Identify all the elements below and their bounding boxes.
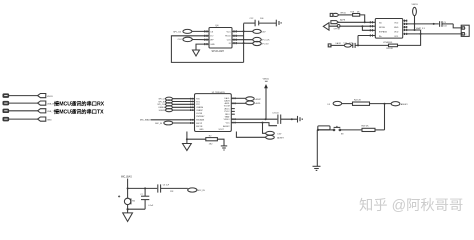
svg-text:2.2: 2.2 (328, 45, 331, 47)
svg-text:SPI-FLASH: SPI-FLASH (212, 50, 225, 53)
svg-text:P21: P21 (196, 101, 199, 103)
svg-text:GND: GND (47, 119, 52, 121)
svg-text:VHCU: VHCU (340, 12, 346, 14)
svg-text:USBDM: USBDM (158, 107, 166, 109)
svg-text:RFIO: RFIO (225, 114, 230, 116)
svg-text:HOLD: HOLD (225, 36, 231, 38)
svg-text:SPI_CS: SPI_CS (173, 31, 181, 33)
svg-text:SPI_CS: SPI_CS (158, 99, 166, 101)
svg-text:104: 104 (443, 25, 446, 27)
svg-text:VOUT: VOUT (219, 129, 225, 131)
svg-text:GND: GND (210, 44, 215, 46)
svg-text:MIC1N: MIC1N (196, 126, 203, 128)
svg-text:C7: C7 (140, 194, 142, 196)
svg-text:VCOM: VCOM (224, 106, 230, 108)
svg-text:MODE: MODE (379, 27, 386, 29)
svg-text:VCC: VCC (226, 122, 231, 124)
svg-text:C21: C21 (343, 43, 346, 45)
svg-text:PVCC: PVCC (224, 111, 230, 113)
svg-text:C9: C9 (443, 22, 445, 24)
svg-text:LTM8205: LTM8205 (383, 42, 393, 44)
svg-text:接MCU通讯的串口TX: 接MCU通讯的串口TX (54, 107, 104, 115)
svg-text:USBDP: USBDP (196, 110, 203, 112)
svg-text:3.3V: 3.3V (261, 32, 266, 34)
svg-text:R18: R18 (350, 12, 353, 14)
svg-text:P22: P22 (196, 104, 199, 106)
svg-text:CLK: CLK (178, 39, 183, 41)
svg-text:LDOIN: LDOIN (196, 113, 202, 115)
svg-text:GND: GND (394, 27, 399, 29)
svg-text:PWRKEY: PWRKEY (196, 116, 205, 118)
svg-text:SPI_CLK: SPI_CLK (157, 104, 166, 106)
svg-text:接MCU通讯的串口RX: 接MCU通讯的串口RX (54, 99, 105, 107)
svg-text:VCC: VCC (226, 31, 231, 33)
svg-text:U1 TRX04ON: U1 TRX04ON (212, 92, 225, 94)
svg-text:0.1uF: 0.1uF (148, 205, 154, 207)
svg-text:C6 1uF: C6 1uF (163, 185, 170, 187)
svg-text:USBDM: USBDM (196, 107, 203, 109)
svg-text:SPI_SO: SPI_SO (158, 101, 166, 103)
svg-text:MIC1P: MIC1P (196, 123, 203, 125)
svg-text:VDDIO: VDDIO (224, 119, 231, 121)
svg-text:VMCU: VMCU (412, 4, 419, 6)
svg-text:DO: DO (210, 36, 213, 38)
svg-text:VHCU: VHCU (47, 96, 53, 98)
svg-text:USBDP: USBDP (159, 110, 167, 112)
svg-text:104: 104 (349, 43, 352, 45)
svg-text:知乎 @阿秋哥哥: 知乎 @阿秋哥哥 (359, 197, 463, 214)
svg-text:R20 0R: R20 0R (386, 48, 393, 50)
svg-text:CLK: CLK (227, 40, 232, 42)
svg-text:VDD: VDD (394, 32, 399, 34)
svg-text:GND: GND (199, 129, 204, 131)
svg-text:3.3V: 3.3V (277, 134, 282, 136)
svg-text:R29 2K: R29 2K (362, 125, 370, 127)
svg-text:SPI_SO: SPI_SO (261, 43, 269, 45)
svg-text:VMCU: VMCU (263, 78, 270, 80)
svg-text:R22 2K: R22 2K (354, 100, 362, 102)
svg-text:MIC_IN: MIC_IN (198, 190, 206, 192)
svg-text:OPT1R: OPT1R (334, 28, 341, 30)
svg-text:C3 104: C3 104 (272, 113, 278, 115)
svg-text:MIC_IN: MIC_IN (155, 123, 162, 125)
svg-text:SPI_CLK: SPI_CLK (261, 39, 270, 41)
svg-text:P20: P20 (196, 99, 199, 101)
